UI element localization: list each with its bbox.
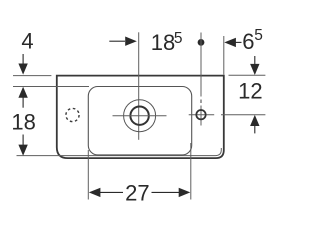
dimension 4: upper arrow bbox=[22, 54, 24, 64]
dimension 18 left: top arrow bbox=[18, 87, 27, 98]
svg-text:5: 5 bbox=[174, 30, 183, 47]
svg-text:5: 5 bbox=[254, 27, 263, 44]
svg-text:18: 18 bbox=[151, 30, 175, 55]
svg-text:27: 27 bbox=[125, 181, 149, 206]
rear ledge line bbox=[13, 86, 89, 88]
dimension 27: right arrow bbox=[152, 191, 180, 193]
dimension 27: right extension line bbox=[190, 143, 192, 200]
drain outer circle bbox=[124, 100, 156, 132]
drain crosshair horizontal bbox=[113, 115, 167, 117]
tap hole crosshair horizontal / 12 bottom extension bbox=[189, 114, 215, 116]
svg-text:12: 12 bbox=[238, 79, 262, 104]
dimension 12: top arrow bbox=[254, 56, 256, 64]
dimension 6.5: extension line (basin right edge extended) bbox=[223, 36, 225, 75]
svg-text:6: 6 bbox=[242, 29, 254, 54]
extension line top left (basin top level) bbox=[13, 75, 51, 77]
dimension 6.5 arrow bbox=[224, 38, 236, 47]
tap hole centerline bbox=[200, 33, 202, 97]
overflow dashed circle bbox=[66, 108, 79, 121]
dimension 18 left: bottom arrow bbox=[22, 135, 24, 146]
dimension 12: top extension line bbox=[229, 74, 266, 76]
svg-text:4: 4 bbox=[21, 28, 33, 53]
dimension 18.5 leader bbox=[109, 40, 125, 42]
tap hole centerline dot bbox=[198, 39, 205, 46]
drain inner circle bbox=[130, 107, 148, 125]
basin inner front edge line bbox=[17, 148, 222, 156]
tap hole bbox=[196, 110, 205, 119]
dimension 27: left extension line bbox=[87, 150, 89, 200]
bowl outline bbox=[88, 87, 191, 155]
svg-text:18: 18 bbox=[11, 110, 35, 135]
drain centerline bbox=[138, 32, 140, 140]
dimension 12: bottom arrow bbox=[250, 115, 259, 126]
dimension 27: left arrow bbox=[89, 188, 101, 197]
basin outer outline bbox=[57, 76, 224, 159]
